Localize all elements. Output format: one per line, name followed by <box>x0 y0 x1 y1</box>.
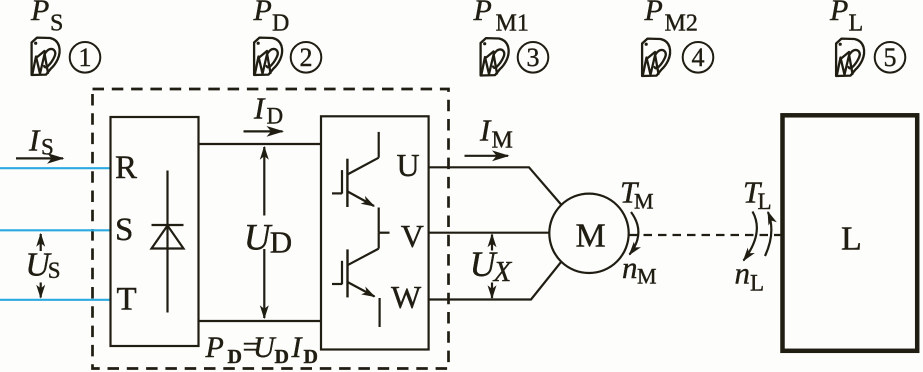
load block L <box>783 115 918 350</box>
label P_M1 <box>473 0 529 37</box>
circled number 4 <box>683 42 714 73</box>
hand icon 3 <box>481 38 509 75</box>
label n_L <box>735 256 765 296</box>
circled number 3 <box>518 42 549 73</box>
svg-text:5: 5 <box>884 43 897 72</box>
dimension arrow U_D lower <box>263 249 265 318</box>
svg-text:4: 4 <box>692 43 705 72</box>
diode D1 lead <box>166 171 168 313</box>
svg-text:I: I <box>28 123 41 158</box>
svg-text:D: D <box>275 346 289 368</box>
svg-text:L: L <box>758 189 772 214</box>
arrow I_M <box>465 155 509 157</box>
inverter block <box>321 116 429 349</box>
svg-text:L: L <box>849 11 864 37</box>
svg-text:n: n <box>622 250 638 285</box>
svg-text:D: D <box>270 224 292 259</box>
svg-text:M2: M2 <box>665 11 698 37</box>
circled number 1 <box>70 42 101 73</box>
label P_M2 <box>644 0 698 37</box>
label I_M <box>479 113 513 154</box>
svg-text:L: L <box>841 221 862 258</box>
hand icon 2 <box>254 38 282 75</box>
svg-text:T: T <box>117 282 137 318</box>
diode D1 triangle <box>152 226 184 249</box>
svg-text:n: n <box>735 256 751 291</box>
rectifier block <box>111 117 199 346</box>
arrow I_S <box>16 157 63 159</box>
wire T phase (cyan) <box>0 299 111 301</box>
IGBT Q2 body bar <box>346 249 348 297</box>
svg-text:M1: M1 <box>496 11 529 37</box>
label P_L <box>829 0 863 37</box>
wire W phase to motor <box>429 262 562 300</box>
svg-text:W: W <box>391 279 422 315</box>
svg-text:S: S <box>115 212 133 248</box>
label n_M <box>622 250 657 289</box>
IGBT Q1 emitter arrow <box>347 191 374 206</box>
label P_D <box>253 0 290 37</box>
wire DC bus top <box>199 143 322 145</box>
svg-text:P: P <box>30 0 49 27</box>
arrow I_D <box>244 130 283 132</box>
svg-text:I: I <box>253 91 266 126</box>
svg-text:2: 2 <box>300 43 313 72</box>
shaft dashed line <box>629 234 781 236</box>
label P_S <box>30 0 63 37</box>
svg-text:P: P <box>644 0 663 27</box>
dimension arrow U_X upper <box>491 235 493 251</box>
rotation arrow n_L <box>744 212 757 261</box>
label T_L <box>743 175 772 214</box>
svg-text:I: I <box>479 113 492 148</box>
wire V phase to motor <box>429 232 550 234</box>
IGBT Q1 collector diagonal <box>347 158 378 175</box>
diode D1 cathode bar <box>152 224 184 226</box>
svg-text:L: L <box>750 271 764 296</box>
motor M circle <box>549 194 628 273</box>
circled number 5 <box>875 42 906 73</box>
IGBT Q1 collector lead <box>378 132 380 158</box>
dimension arrow U_D upper <box>263 147 265 216</box>
svg-text:S: S <box>48 258 61 283</box>
IGBT Q2 gate lead <box>332 283 342 285</box>
svg-text:I: I <box>291 331 304 364</box>
wire DC bus bottom <box>199 320 322 322</box>
svg-text:D: D <box>228 346 242 368</box>
dashed converter enclosure box <box>93 89 449 369</box>
hand icon 5 <box>836 39 864 76</box>
wire S phase (cyan) <box>0 229 111 231</box>
torque arrow T_L <box>765 212 771 256</box>
svg-text:U: U <box>253 331 277 364</box>
svg-text:M: M <box>634 189 654 214</box>
wire U phase to motor <box>429 167 562 204</box>
svg-text:P: P <box>253 0 272 27</box>
svg-text:U: U <box>397 147 420 183</box>
label T_M <box>620 175 654 214</box>
label I_D <box>253 91 283 129</box>
IGBT Q2 collector lead <box>378 233 380 249</box>
dimension arrow U_S lower <box>40 283 42 298</box>
IGBT Q1 body bar <box>346 159 348 207</box>
svg-text:P: P <box>473 0 492 27</box>
rotation arrow n_M <box>630 212 639 255</box>
IGBT Q2 gate bar <box>341 261 343 285</box>
IGBT Q1 emitter lead <box>378 208 380 233</box>
node V stub <box>379 232 390 234</box>
IGBT Q2 collector diagonal <box>348 249 379 266</box>
svg-text:D: D <box>304 346 318 368</box>
label I_S <box>28 123 54 160</box>
svg-text:V: V <box>401 218 424 254</box>
svg-text:D: D <box>267 104 284 129</box>
svg-text:3: 3 <box>527 43 540 72</box>
label U_X <box>470 244 513 288</box>
svg-text:U: U <box>244 217 273 258</box>
wire R phase (cyan) <box>0 167 111 169</box>
svg-text:1: 1 <box>79 43 92 72</box>
label U_D <box>244 217 292 259</box>
svg-text:S: S <box>41 135 54 160</box>
IGBT Q1 gate lead <box>332 192 342 194</box>
svg-text:R: R <box>115 150 137 186</box>
svg-text:P: P <box>205 331 224 364</box>
label U_S <box>25 247 60 284</box>
circled number 2 <box>291 42 322 73</box>
IGBT Q1 gate bar <box>341 170 343 194</box>
svg-text:M: M <box>637 264 657 289</box>
IGBT Q2 emitter lead <box>379 298 381 327</box>
dimension arrow U_X lower <box>491 283 493 299</box>
hand icon 1 <box>32 38 60 75</box>
svg-text:P: P <box>829 0 848 27</box>
label P_D = U_D I_D <box>205 331 318 369</box>
svg-text:D: D <box>272 11 289 37</box>
dimension arrow U_S upper <box>40 234 42 251</box>
IGBT Q2 emitter arrow <box>348 282 375 297</box>
svg-text:M: M <box>492 128 513 154</box>
svg-text:M: M <box>576 218 606 255</box>
svg-text:S: S <box>50 11 63 37</box>
hand icon 4 <box>642 39 670 76</box>
svg-text:X: X <box>493 256 513 288</box>
